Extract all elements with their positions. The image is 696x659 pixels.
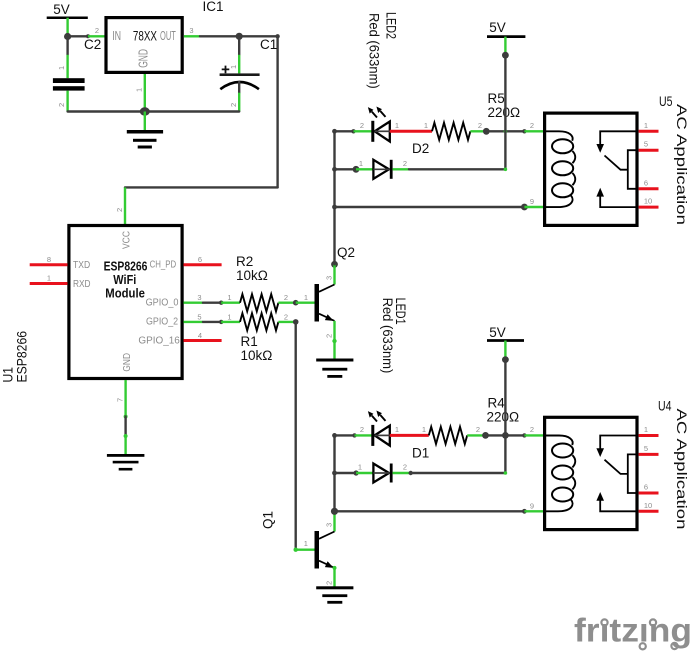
svg-text:2: 2	[95, 26, 99, 35]
diode D1	[373, 446, 429, 483]
pin 4 GPIO_16 stub	[184, 331, 222, 341]
svg-text:3: 3	[325, 523, 334, 527]
svg-text:Module: Module	[105, 287, 145, 301]
svg-text:D2: D2	[412, 141, 429, 156]
LED1	[368, 411, 391, 446]
svg-text:1: 1	[304, 293, 308, 302]
junction at ground node	[140, 107, 150, 115]
svg-text:10kΩ: 10kΩ	[241, 348, 273, 363]
D2 wire row	[335, 159, 374, 173]
svg-text:LED2: LED2	[384, 12, 399, 39]
svg-text:GND: GND	[136, 49, 151, 68]
LED2	[368, 107, 391, 142]
red wire LED1 to R4	[390, 425, 429, 436]
svg-text:2: 2	[57, 103, 66, 107]
wire D1 to 5V rail	[393, 360, 508, 476]
vertical bus wire (upper half)	[332, 129, 337, 264]
svg-text:WiFi: WiFi	[113, 273, 136, 287]
svg-text:1: 1	[422, 425, 426, 434]
Q2 collector wire to relay U5 pin 9	[335, 197, 544, 210]
svg-text:1: 1	[227, 312, 231, 321]
svg-text:220Ω: 220Ω	[488, 105, 521, 120]
wire to Q2 base	[296, 293, 315, 303]
svg-text:1: 1	[229, 65, 238, 69]
svg-text:2: 2	[325, 581, 334, 585]
wire D2 to 5V rail	[393, 55, 508, 171]
LED1 wire row	[335, 425, 372, 438]
svg-text:IN: IN	[112, 28, 121, 43]
svg-text:2: 2	[229, 103, 238, 107]
svg-text:Q2: Q2	[337, 245, 355, 260]
ESP8266 module U1	[69, 226, 182, 379]
node B junction	[236, 33, 243, 40]
red wire LED2 to R5	[390, 121, 432, 132]
svg-text:2: 2	[284, 293, 288, 302]
svg-text:8: 8	[47, 255, 51, 264]
svg-text:1: 1	[304, 539, 308, 548]
transistor Q1	[261, 511, 337, 589]
svg-text:9: 9	[530, 197, 534, 206]
relay U5	[544, 113, 659, 225]
resistor R2 10k	[221, 254, 296, 311]
svg-text:1: 1	[358, 463, 362, 472]
svg-text:1: 1	[424, 121, 428, 130]
svg-text:78XX: 78XX	[133, 28, 158, 44]
relay U4	[544, 417, 659, 529]
U1 label	[0, 331, 29, 383]
svg-text:GPIO_16: GPIO_16	[138, 336, 180, 347]
svg-text:Red (633nm): Red (633nm)	[380, 298, 395, 374]
diode D2	[373, 141, 429, 179]
pin 3 GPIO_0 leg and wire	[184, 293, 224, 305]
svg-text:IC1: IC1	[203, 0, 224, 14]
svg-text:GPIO_0: GPIO_0	[146, 298, 179, 309]
svg-text:2: 2	[530, 121, 534, 130]
svg-text:ESP8266: ESP8266	[104, 260, 148, 274]
node R2/Q2 base junction	[293, 300, 299, 306]
capacitor C1 (electrolytic)	[220, 37, 278, 112]
svg-text:7: 7	[116, 398, 125, 402]
vertical bus wire (lower half)	[332, 433, 337, 511]
svg-text:2: 2	[115, 208, 124, 212]
svg-text:C2: C2	[84, 37, 101, 52]
svg-text:U4: U4	[658, 399, 672, 414]
power symbol 5V (relay U4)	[487, 325, 524, 360]
svg-text:Red (633nm): Red (633nm)	[367, 13, 382, 89]
svg-text:RXD: RXD	[73, 279, 91, 290]
svg-text:2: 2	[403, 463, 407, 472]
wire node A to IC1 IN pin 2	[68, 26, 105, 38]
svg-text:ESP8266: ESP8266	[15, 331, 30, 383]
node R4 junction	[482, 432, 489, 439]
transistor Q2	[315, 245, 356, 359]
D1 wire row	[335, 463, 374, 476]
junction on R4 row where 5V rail crosses	[502, 432, 509, 439]
svg-text:U1: U1	[0, 367, 15, 383]
wire IC1 OUT pin 3 to node B	[184, 26, 239, 36]
LED1 label	[380, 298, 408, 374]
svg-text:3: 3	[197, 293, 201, 302]
node A junction	[64, 33, 71, 40]
svg-text:GND: GND	[122, 353, 133, 372]
svg-text:4: 4	[198, 331, 202, 340]
svg-text:1: 1	[359, 159, 363, 168]
wire R1 to Q1 base	[294, 322, 315, 552]
svg-text:AC Application: AC Application	[674, 409, 689, 530]
IC1 GND pin 1 leg	[135, 74, 145, 112]
power symbol 5V (top left)	[47, 2, 88, 37]
svg-text:5V: 5V	[489, 20, 506, 35]
svg-text:3: 3	[325, 276, 334, 280]
wire node B to ESP8266 VCC	[115, 34, 280, 225]
svg-text:1: 1	[395, 425, 399, 434]
svg-text:GPIO_2: GPIO_2	[146, 316, 178, 327]
resistor R4 220	[429, 396, 519, 445]
svg-text:1: 1	[57, 66, 66, 70]
node R1 pin2 junction	[293, 319, 299, 325]
node Q1 collector junction	[331, 508, 338, 515]
ground symbol (regulator)	[127, 112, 163, 149]
svg-text:R1: R1	[241, 334, 258, 349]
svg-text:220Ω: 220Ω	[487, 410, 520, 425]
svg-text:3: 3	[189, 26, 193, 35]
svg-text:1: 1	[47, 274, 51, 283]
svg-text:6: 6	[198, 255, 202, 264]
svg-text:1: 1	[135, 88, 144, 92]
ground symbol (Q2)	[316, 359, 353, 378]
svg-text:2: 2	[530, 425, 534, 434]
svg-text:R2: R2	[236, 254, 253, 269]
pin 7 GND leg of ESP8266	[116, 380, 128, 454]
svg-text:OUT: OUT	[160, 28, 176, 43]
node R5/relay junction	[483, 128, 490, 135]
svg-text:AC Application: AC Application	[674, 104, 689, 225]
svg-text:TXD: TXD	[73, 260, 90, 271]
pin 1 RXD stub	[30, 274, 68, 284]
svg-text:5: 5	[197, 312, 201, 321]
svg-text:C1: C1	[260, 37, 277, 52]
LED2 label	[367, 12, 399, 89]
ground symbol (ESP8266)	[107, 454, 144, 471]
junction 5V rail	[502, 52, 509, 59]
svg-text:U5: U5	[659, 94, 673, 109]
voltage regulator IC1 78XX	[106, 0, 224, 72]
resistor R5 220	[432, 91, 520, 140]
svg-text:2: 2	[360, 425, 364, 434]
power symbol 5V (relay U5)	[487, 20, 525, 55]
pin 6 CH_PD stub	[184, 255, 222, 265]
svg-text:2: 2	[360, 121, 364, 130]
svg-text:D1: D1	[412, 446, 429, 461]
svg-text:R4: R4	[488, 396, 506, 411]
wire to relay U5 pin 2	[486, 121, 543, 134]
pin 5 GPIO_2 leg and wire	[184, 312, 224, 324]
wire to relay U4 pin 2	[486, 425, 544, 438]
svg-text:VCC: VCC	[122, 231, 133, 249]
svg-text:2: 2	[325, 334, 334, 338]
svg-text:2: 2	[478, 121, 482, 130]
svg-text:10kΩ: 10kΩ	[236, 268, 268, 283]
svg-text:1: 1	[395, 121, 399, 130]
ground symbol (Q1)	[316, 586, 353, 603]
svg-text:1: 1	[227, 293, 231, 302]
ground wire under regulator block	[68, 110, 240, 112]
svg-text:5V: 5V	[489, 325, 506, 340]
svg-text:2: 2	[476, 425, 480, 434]
svg-text:CH_PD: CH_PD	[150, 259, 177, 270]
svg-text:Q1: Q1	[261, 511, 276, 529]
capacitor C2	[53, 37, 101, 112]
svg-text:9: 9	[530, 501, 534, 510]
junction 5V rail (lower)	[502, 356, 509, 363]
svg-text:5V: 5V	[53, 2, 70, 17]
resistor R1 10k	[221, 312, 296, 363]
svg-text:2: 2	[284, 312, 288, 321]
Q1 collector wire to relay U4 pin 9	[335, 501, 544, 513]
svg-text:2: 2	[403, 159, 407, 168]
LED2 wire row	[335, 121, 372, 134]
pin 8 TXD stub	[30, 255, 68, 265]
svg-text:R5: R5	[488, 91, 505, 106]
